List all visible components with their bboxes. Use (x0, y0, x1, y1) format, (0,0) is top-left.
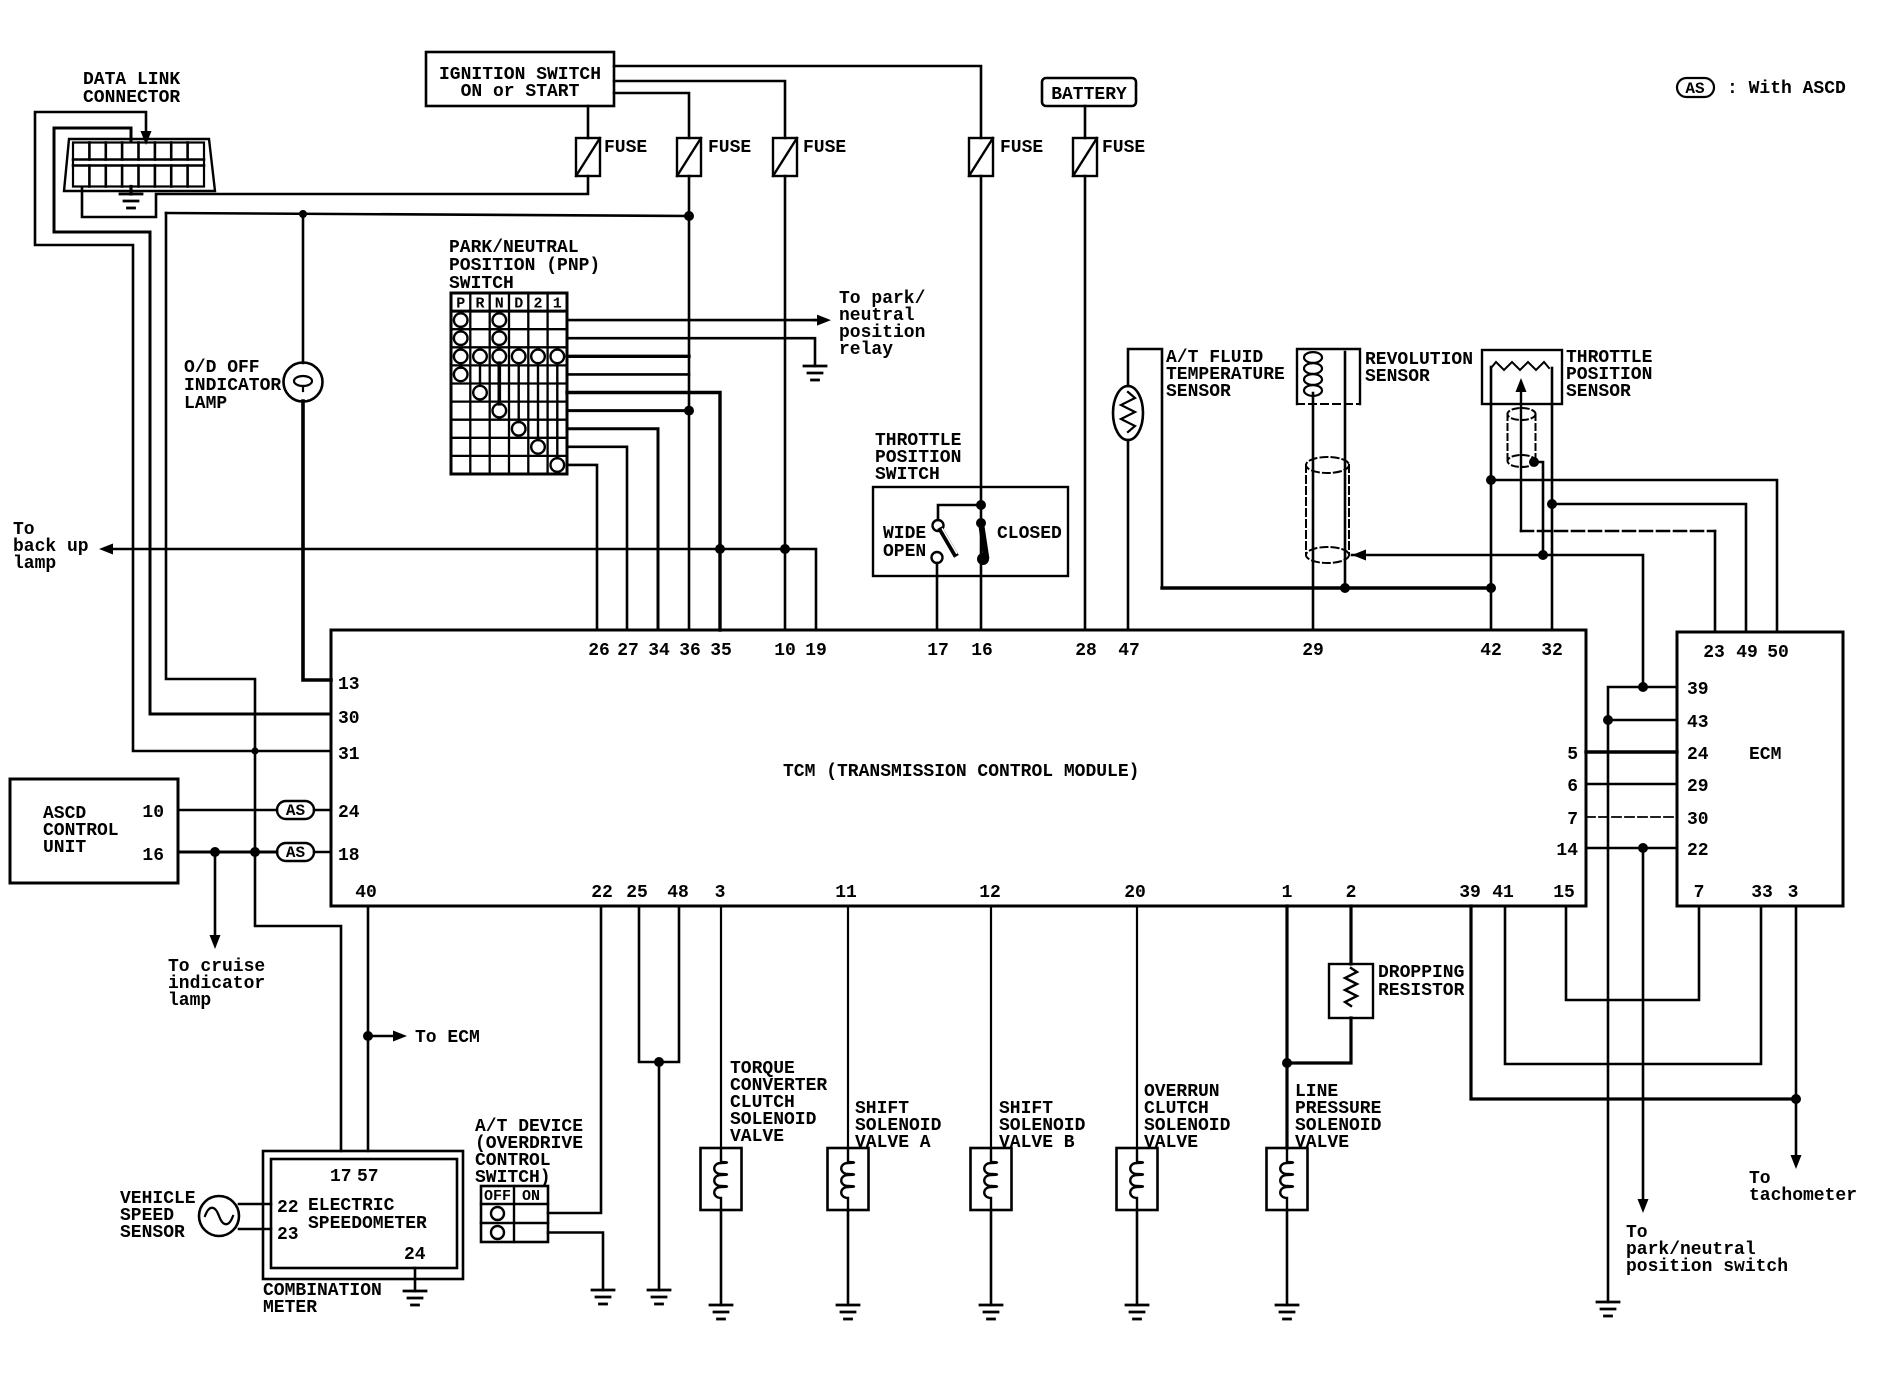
wire: fuse F1 to data link connector (82, 176, 588, 217)
svg-text:BATTERY: BATTERY (1051, 85, 1127, 105)
wire: revolution sensor coil to TCM 29 (1312, 393, 1315, 630)
svg-text:VALVE B: VALVE B (999, 1133, 1075, 1153)
svg-text:VALVE A: VALVE A (855, 1133, 931, 1153)
wire: TCM 41 to ECM 33 (1505, 906, 1761, 1064)
svg-text:57: 57 (357, 1167, 379, 1187)
wire: PNP row8 to TCM pin 34 (567, 429, 658, 630)
svg-text:CONNECTOR: CONNECTOR (83, 88, 180, 108)
wire: branch to TCM pin 19 (785, 549, 816, 630)
wire: sensor rail y=588 (1162, 586, 1491, 589)
svg-text:FUSE: FUSE (803, 138, 846, 158)
svg-text:D: D (514, 296, 523, 313)
wire: O/D lamp to TCM pin 13 (303, 401, 331, 680)
svg-text:N: N (495, 296, 504, 313)
svg-text:AS: AS (1685, 80, 1705, 98)
svg-text:ECM: ECM (1749, 745, 1781, 765)
svg-text:O/D OFF: O/D OFF (184, 358, 260, 378)
wire+arrow: to ECM (368, 1035, 393, 1038)
svg-text:50: 50 (1767, 643, 1789, 663)
svg-text:26: 26 (588, 641, 610, 661)
svg-text:40: 40 (355, 883, 377, 903)
svg-text:6: 6 (1567, 777, 1578, 797)
svg-text:2: 2 (1346, 883, 1357, 903)
svg-text:AS: AS (286, 844, 306, 862)
svg-text:P: P (456, 296, 465, 313)
svg-text:24: 24 (1687, 745, 1709, 765)
svg-text:12: 12 (979, 883, 1001, 903)
svg-text:48: 48 (667, 883, 689, 903)
svg-text:49: 49 (1736, 643, 1758, 663)
svg-text:30: 30 (338, 709, 360, 729)
ground (torque converter clutch solenoid valve) (710, 1305, 732, 1319)
ASCD control unit (10, 779, 178, 883)
fuse F4 (969, 138, 993, 176)
line pressure solenoid valve (1285, 906, 1288, 1148)
wire: data link connector pin to TCM pin 31 (outer route) (35, 112, 331, 751)
node: junction rail/TPS left wire (1486, 583, 1496, 593)
svg-text:SENSOR: SENSOR (120, 1223, 185, 1243)
node: junction fuse3 line / back-up lamp wire (780, 544, 790, 554)
wire+arrow: shield to ECM 39 line (1352, 550, 1366, 561)
svg-text:10: 10 (774, 641, 796, 661)
svg-text:47: 47 (1118, 641, 1140, 661)
contact: CLOSED (closed blade) (976, 518, 986, 528)
battery box (1042, 78, 1136, 106)
wire: TPS right terminal to TCM 32 (1551, 404, 1554, 630)
fuse F3 (773, 138, 797, 176)
wire: TCM 14 to ECM 22 (1586, 847, 1677, 850)
svg-text:17: 17 (330, 1167, 352, 1187)
svg-text:SPEEDOMETER: SPEEDOMETER (308, 1214, 427, 1234)
node: junction back-up lamp line / pin35 wire (715, 544, 725, 554)
node: junction speed net vertical / TCM31 wire (251, 747, 258, 754)
svg-text:TCM (TRANSMISSION CONTROL MODU: TCM (TRANSMISSION CONTROL MODULE) (783, 762, 1139, 782)
node: junction fuse2 line / PNP row7 (684, 406, 694, 416)
ground (shift solenoid valve A) (837, 1305, 859, 1319)
svg-text:22: 22 (591, 883, 613, 903)
wire: TCM 40 to speedometer 57 (367, 906, 370, 1151)
node: junction shield wire / TPS shield stub (1538, 550, 1548, 560)
wire ignition switch to fuse F1 (587, 106, 590, 138)
svg-text:ELECTRIC: ELECTRIC (308, 1196, 395, 1216)
wire: fuse F4 down into switch, CLOSED contact, to TCM pin 16 (980, 176, 983, 630)
svg-text:16: 16 (971, 641, 993, 661)
svg-text:41: 41 (1492, 883, 1514, 903)
wire: junction to O/D OFF indicator lamp (302, 214, 305, 363)
wire: PNP row9 to TCM pin 27 (567, 447, 627, 630)
wire: TCM 5 to ECM 24 (1586, 750, 1677, 753)
shift solenoid valve A (847, 906, 849, 1148)
wire: VSS to speedometer 23 (239, 1228, 271, 1231)
wire: TCM 39 / ECM 3 to tachometer (1471, 906, 1796, 1099)
svg-text:23: 23 (277, 1225, 299, 1245)
node: junction on pin40 wire for To ECM (363, 1031, 373, 1041)
wire: TCM 7 to ECM 30 (1586, 816, 1677, 818)
svg-text:29: 29 (1302, 641, 1324, 661)
ground (ECM 39/43) (1597, 1302, 1619, 1316)
svg-text:OFF: OFF (484, 1188, 511, 1205)
ground (line pressure solenoid valve) (1276, 1305, 1298, 1319)
wire: data link connector pin to TCM pin 30 (inner route) (54, 128, 331, 714)
svg-text:28: 28 (1075, 641, 1097, 661)
ground (A/T device) (592, 1290, 614, 1304)
svg-text:24: 24 (338, 803, 360, 823)
ground (shift solenoid valve B) (980, 1305, 1002, 1319)
svg-text:To ECM: To ECM (415, 1028, 480, 1048)
svg-text:14: 14 (1556, 841, 1578, 861)
svg-text:SWITCH: SWITCH (449, 274, 514, 294)
svg-text:R: R (475, 296, 484, 313)
fuse F1 (576, 138, 600, 176)
svg-text:43: 43 (1687, 713, 1709, 733)
svg-text:VALVE: VALVE (1295, 1133, 1349, 1153)
node: junction on TCM14/ECM22 wire (1638, 843, 1648, 853)
fuse F2 (677, 138, 701, 176)
wire: temp sensor top to sensor-ground rail (1128, 349, 1162, 588)
node: TPS shield tap (1529, 457, 1539, 467)
svg-text:34: 34 (648, 641, 670, 661)
svg-text:1: 1 (553, 296, 562, 313)
svg-text:20: 20 (1124, 883, 1146, 903)
AS oval (pin 18 wire) (277, 843, 314, 861)
torque converter clutch solenoid valve (720, 906, 722, 1148)
svg-text:3: 3 (715, 883, 726, 903)
svg-text:7: 7 (1694, 883, 1705, 903)
wire: TCM 25 and 48 to ground (639, 906, 679, 1062)
wire: TPS right to ECM 49 (1552, 504, 1746, 632)
svg-text:RESISTOR: RESISTOR (1378, 981, 1465, 1001)
ignition switch box (426, 52, 614, 106)
svg-text:SENSOR: SENSOR (1566, 382, 1631, 402)
svg-text:24: 24 (404, 1245, 426, 1265)
svg-text:AS: AS (286, 802, 306, 820)
svg-text:ON: ON (522, 1188, 540, 1205)
TCM (transmission control module) (331, 630, 1586, 906)
node: junction on y=216 wire for O/D lamp (299, 210, 307, 218)
svg-text:3: 3 (1788, 883, 1799, 903)
svg-text:VALVE: VALVE (730, 1127, 784, 1147)
wire: ECM 39 to ground rail (1608, 687, 1677, 1302)
wire: TPS supply to ECM 50 (1491, 480, 1777, 632)
wire+contact: WIDE OPEN side (938, 505, 981, 520)
O/D OFF indicator lamp (284, 363, 323, 402)
wire: back-up lamp line (113, 548, 785, 551)
svg-text:: With ASCD: : With ASCD (1727, 79, 1846, 99)
svg-text:30: 30 (1687, 810, 1709, 830)
svg-text:39: 39 (1687, 680, 1709, 700)
svg-text:FUSE: FUSE (708, 138, 751, 158)
wire: TCM 6 to ECM 29 (1586, 783, 1677, 786)
shift solenoid valve B (990, 906, 992, 1148)
wire: TPS wiper to ECM 23 (dashed) (1521, 530, 1715, 533)
ground (speedometer) (404, 1291, 426, 1305)
svg-text:22: 22 (277, 1198, 299, 1218)
svg-text:VALVE: VALVE (1144, 1133, 1198, 1153)
node: junction fuse2 line / y216 wire (684, 211, 694, 221)
fuse F5 (1073, 138, 1097, 176)
svg-text:SENSOR: SENSOR (1365, 367, 1430, 387)
svg-text:5: 5 (1567, 745, 1578, 765)
svg-text:CLOSED: CLOSED (997, 524, 1062, 544)
svg-text:tachometer: tachometer (1749, 1186, 1857, 1206)
wire: PNP row3 to ground (567, 338, 815, 366)
node: junction ASCD16 wire / speed net vertical (250, 847, 260, 857)
svg-text:ON or START: ON or START (461, 82, 580, 102)
wire: TPS shield to shield rail (1534, 462, 1543, 555)
node: junction ground rail / ECM43 wire (1603, 715, 1613, 725)
svg-text:19: 19 (805, 641, 827, 661)
svg-text:25: 25 (626, 883, 648, 903)
svg-text:UNIT: UNIT (43, 838, 86, 858)
AS oval (pin 24 wire) (277, 801, 314, 819)
svg-text:10: 10 (142, 803, 164, 823)
node: junction pin1 wire / dropping resistor branch (1282, 1058, 1292, 1068)
svg-text:2: 2 (533, 296, 542, 313)
wire: A/T device to TCM 22 (548, 906, 601, 1213)
wire: fuse F2 down to TCM pin 36 (688, 176, 691, 630)
wire: PNP row4 to fuse F2 line (567, 355, 689, 358)
wiper arrow (1520, 390, 1522, 531)
svg-text:13: 13 (338, 675, 360, 695)
overrun clutch solenoid valve (1136, 906, 1138, 1148)
wire: A/T device to ground (548, 1233, 603, 1291)
svg-text:position switch: position switch (1626, 1257, 1788, 1277)
node: junction ECM39 wire / shield drop (1638, 682, 1648, 692)
svg-text:7: 7 (1567, 810, 1578, 830)
svg-text:27: 27 (617, 641, 639, 661)
wire: net to fuse F2 line (horizontal y=216) (166, 213, 689, 216)
svg-text:11: 11 (835, 883, 857, 903)
svg-text:POSITION (PNP): POSITION (PNP) (449, 256, 600, 276)
wire: TPS left terminal to TCM 42 (1490, 404, 1493, 630)
dropping resistor (1349, 906, 1352, 964)
ground (data link connector) (129, 187, 132, 195)
wire: TCM 15 to ECM 7 (1566, 906, 1699, 1000)
wire ignition switch to fuse F2 (614, 93, 689, 138)
shield cylinder (TPS) (1508, 408, 1536, 420)
wire: battery/fuse F5 down to TCM pin 28 (1084, 176, 1087, 630)
wire: fuse F3 down to TCM pin 10 (784, 176, 787, 630)
svg-text:FUSE: FUSE (1000, 138, 1043, 158)
svg-text:18: 18 (338, 846, 360, 866)
svg-text:METER: METER (263, 1298, 317, 1318)
wire: speedometer 24 to ground (414, 1268, 417, 1291)
ECM box (1677, 632, 1843, 906)
svg-text:39: 39 (1459, 883, 1481, 903)
svg-text:FUSE: FUSE (1102, 138, 1145, 158)
wire: PNP row5 to fuse F2 line (567, 373, 689, 376)
node: junction rail/revolution sensor (1340, 583, 1350, 593)
svg-text:PARK/NEUTRAL: PARK/NEUTRAL (449, 238, 579, 258)
ground (TCM 25/48) (648, 1290, 670, 1304)
svg-text:23: 23 (1703, 643, 1725, 663)
wire: PNP row2 to park/neutral position relay (arrow) (567, 319, 815, 322)
node: junction ASCD16 wire / cruise lamp branch (210, 847, 220, 857)
svg-text:OPEN: OPEN (883, 542, 926, 562)
wire: ECM 43 (1608, 719, 1677, 722)
wire: PNP row10 to TCM pin 26 (567, 465, 597, 630)
svg-text:relay: relay (839, 340, 893, 360)
wire battery to fuse F5 (1084, 106, 1087, 138)
wire: vehicle speed net from connector area to speedometer pin 17 (166, 213, 341, 1151)
svg-text:DROPPING: DROPPING (1378, 963, 1464, 983)
wire: revolution sensor right terminal down to rail (1344, 352, 1347, 588)
svg-text:DATA LINK: DATA LINK (83, 70, 180, 90)
svg-text:SWITCH: SWITCH (875, 465, 940, 485)
svg-text:lamp: lamp (168, 991, 211, 1011)
wire: PNP row6 to TCM pin 35 (567, 393, 720, 631)
wire: PNP row7 to TCM pin 36 via fuse F2 line (567, 409, 689, 412)
wire: ASCD 16 to TCM 18 via AS (178, 851, 277, 854)
svg-text:INDICATOR: INDICATOR (184, 376, 281, 396)
wire ignition switch to fuse F4 (614, 66, 981, 138)
wire ignition switch to fuse F3 (614, 81, 785, 138)
wire: WIDE OPEN contact to TCM pin 17 (936, 563, 939, 630)
svg-text:LAMP: LAMP (184, 394, 227, 414)
svg-text:42: 42 (1480, 641, 1502, 661)
combination meter / electric speedometer (263, 1151, 463, 1279)
wire+arrow: to park/neutral position switch (1642, 848, 1645, 1200)
svg-text:32: 32 (1541, 641, 1563, 661)
svg-text:33: 33 (1751, 883, 1773, 903)
svg-text:1: 1 (1282, 883, 1293, 903)
svg-text:WIDE: WIDE (883, 524, 926, 544)
svg-text:31: 31 (338, 745, 360, 765)
wire+arrow: to cruise indicator lamp (214, 852, 217, 936)
svg-text:29: 29 (1687, 777, 1709, 797)
wire: VSS to speedometer 22 (239, 1203, 271, 1206)
svg-text:SENSOR: SENSOR (1166, 382, 1231, 402)
svg-text:15: 15 (1553, 883, 1575, 903)
svg-text:16: 16 (142, 846, 164, 866)
shield cylinder (revolution sensor) (1306, 457, 1349, 473)
wire: temp sensor to TCM 47 (1127, 440, 1130, 630)
ground (overrun clutch solenoid valve) (1126, 1305, 1148, 1319)
svg-text:22: 22 (1687, 841, 1709, 861)
svg-text:17: 17 (927, 641, 949, 661)
legend: AS with ASCD (1677, 78, 1714, 97)
svg-text:36: 36 (679, 641, 701, 661)
svg-text:35: 35 (710, 641, 732, 661)
svg-text:FUSE: FUSE (604, 138, 647, 158)
wire: ASCD 10 to TCM 24 via AS (178, 809, 277, 812)
svg-text:lamp: lamp (13, 554, 56, 574)
ground (PNP relay side) (804, 366, 826, 380)
